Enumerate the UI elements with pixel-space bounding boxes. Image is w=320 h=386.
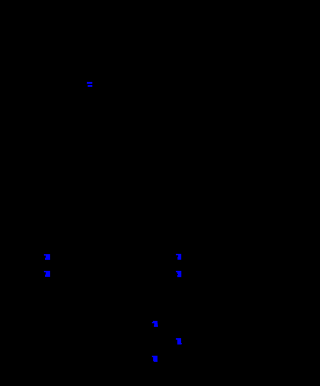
atom N1 double-bond mark lower line [88,85,93,87]
atom label N2 [44,254,50,260]
atom label N5 [176,271,181,277]
atom label N4 [176,254,181,260]
atom label N6 [152,321,158,327]
atom label N3 [44,271,50,277]
atom N1 double-bond mark upper line [87,82,92,84]
atom label N7 [176,338,182,344]
atom label N8 [152,356,158,362]
